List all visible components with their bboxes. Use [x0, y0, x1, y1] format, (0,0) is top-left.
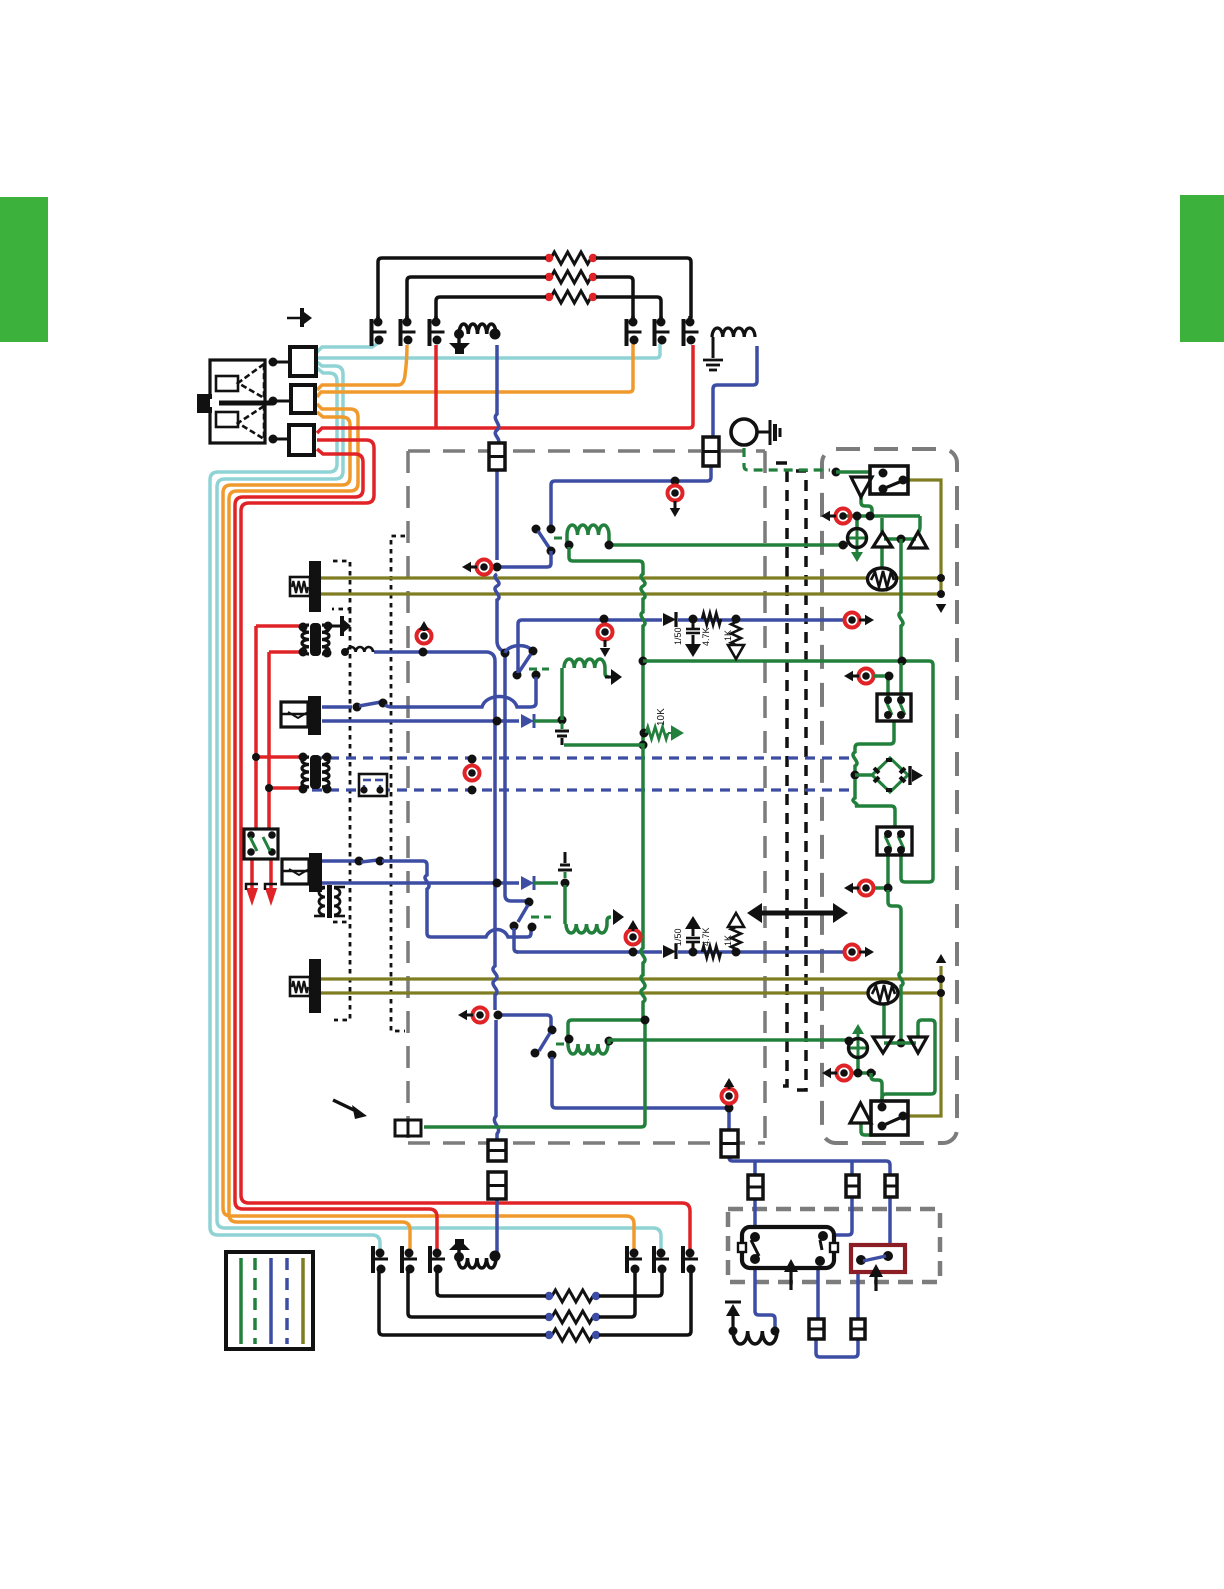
green stub ring y888 — [874, 886, 884, 890]
red ring J2 (IF line) — [417, 629, 432, 644]
blue switch S3 blade — [539, 1033, 550, 1051]
black cap below detector — [561, 723, 564, 729]
T1 pin dot 4 — [323, 649, 332, 658]
L1 left dot — [454, 329, 464, 339]
relay K1 box — [742, 1227, 834, 1268]
green dot detector2 — [561, 879, 570, 888]
olive wire from relay U1 down to bus — [908, 480, 941, 597]
green dot y545 — [839, 541, 848, 550]
blue spk1 switch blade — [359, 702, 381, 706]
green dot y539 — [897, 535, 906, 544]
blue switch S3 lower dot — [548, 1051, 557, 1060]
speaker lead 3 — [277, 438, 289, 441]
blue dot spk1 sw a — [353, 703, 362, 712]
blue wire S2 throw1 to av line — [514, 928, 518, 952]
blue dot S1a common — [529, 647, 538, 656]
connector C17 — [488, 1140, 506, 1161]
red supply wire vertical B — [267, 652, 271, 830]
earth triangle 1K b — [728, 913, 744, 927]
legend green dashed — [253, 1258, 257, 1344]
green det2 coil L7 — [566, 924, 607, 933]
olive wire from bus up-arrow to relay U2 — [908, 966, 941, 1116]
green osc2 output y1040 — [609, 1038, 848, 1042]
svg-text:1K: 1K — [723, 935, 733, 946]
blue wire relay K1 to horn coil L4 — [755, 1259, 775, 1329]
connector C19 — [721, 1130, 738, 1157]
connector C18 — [488, 1172, 506, 1199]
red wire cap C3 lead down to rail — [434, 345, 438, 428]
green junction dot y1020 — [641, 1016, 650, 1025]
olive continuation arrow (down) — [936, 604, 947, 613]
relay U2 contacts — [878, 1103, 887, 1112]
green lamp DS1 cross v — [856, 529, 859, 549]
black cap mark above red arrow 2 — [265, 884, 277, 890]
connector C15 — [809, 1319, 824, 1339]
dashed shield line 1 — [776, 463, 787, 1086]
resistor 1K b vertical — [731, 927, 741, 949]
fuse connector F1 — [489, 443, 505, 470]
horn SP circle — [731, 419, 757, 445]
green wire L5 to mixer column — [569, 547, 645, 741]
connector C20 — [885, 1175, 897, 1197]
connector box3 — [289, 425, 314, 455]
K2 contacts — [856, 1255, 866, 1265]
horn element bar1 — [769, 420, 772, 445]
J6 dot — [494, 1011, 503, 1020]
antenna coil L2 — [712, 328, 755, 337]
red ring J5 (AGC) — [465, 766, 480, 781]
green osc feedback wire y545 — [609, 543, 848, 547]
red wire to IF transformer T2 pin1 — [256, 755, 301, 759]
main unit dashed border (top edge right part) — [721, 449, 765, 453]
green wire lamp DS2 up arrow — [852, 1024, 864, 1034]
blue wire y620 collector — [518, 620, 662, 673]
blue switch S1 lower dot — [547, 547, 556, 556]
red stub to arrow 1 — [250, 858, 254, 888]
green wire det2 coil L7 left lead — [563, 885, 567, 924]
speaker cone upper neck — [216, 376, 238, 391]
variable capacitor C10 — [630, 1249, 639, 1258]
red wire to IF transformer T2 pin2 — [269, 786, 301, 790]
blue main vertical (mid section) — [495, 470, 499, 560]
blue wire speaker1 bottom lead — [322, 719, 519, 723]
red ring J13 (SW-B row) — [859, 881, 874, 896]
red wire box3 to caps C3/C6 top rail — [317, 345, 693, 433]
blue wire ring row to switch S3 — [498, 1015, 551, 1028]
main unit dashed border (bottom edge) — [408, 1141, 765, 1145]
resistor R4 — [552, 1290, 593, 1302]
variable capacitor C1 — [376, 316, 380, 322]
green dashed stub at S1 — [554, 537, 568, 540]
green switch box SW-A verticals — [888, 663, 901, 700]
resistor R1 — [551, 252, 591, 264]
junction dot y1108 — [725, 1104, 734, 1113]
blue switch S3 top dot — [548, 1026, 557, 1035]
green mixer output y661 — [643, 661, 933, 882]
green dot L5 left — [565, 541, 574, 550]
red terminal R2 right — [589, 273, 597, 281]
red wire to IF transformer T1 pin2 — [269, 650, 301, 654]
J9 arrow right — [865, 615, 874, 626]
green wire diode D2 out — [534, 719, 558, 723]
blue IF signal wire y652 — [374, 652, 497, 1010]
blue wire speaker2 top lead — [322, 859, 355, 863]
red feed arrow 1 — [246, 888, 258, 906]
parasitic choke on y652 — [347, 647, 373, 652]
blue wire relay K1 pin4 to connector C15 — [816, 1262, 820, 1319]
red terminal R1 right — [589, 254, 597, 262]
green dot diamond feed — [851, 771, 860, 780]
muting relay green blades — [250, 837, 270, 851]
green dot y888 — [884, 884, 893, 893]
J11 arrow — [844, 671, 853, 682]
blue branch vertical to switch S2 — [505, 653, 529, 901]
L4 lead with arrow — [731, 1316, 734, 1331]
green long vertical to mixer row — [899, 539, 903, 661]
green wire to lamp DS2 dot — [845, 1037, 854, 1046]
annotation arrow up 2 — [874, 1277, 877, 1291]
J6 arrow — [458, 1010, 467, 1021]
blue switch S2 throw1 dot — [510, 922, 519, 931]
blue wire y952 right of diode — [678, 950, 846, 954]
green wire SW-B to ring row y888 — [886, 850, 890, 885]
triangle T5 up open — [850, 1103, 871, 1123]
blue dot spk2 sw a — [355, 857, 364, 866]
J12 arrow right — [865, 947, 874, 958]
relay U2 blade — [884, 1117, 902, 1125]
L3 left dot — [454, 1252, 464, 1262]
red terminal R3 right — [589, 293, 597, 301]
T1 pin dot 3 — [299, 648, 308, 657]
blue dot S1a throw1 — [513, 671, 522, 680]
green det2 coil L7 right lead — [607, 917, 611, 924]
starter relay K2 box (dark red) — [851, 1245, 905, 1272]
horn element bar3 — [779, 428, 782, 437]
resistor R5 — [552, 1311, 593, 1323]
speaker terminal dot 3 — [269, 435, 278, 444]
green wire T1 bottom to thermistor W1 — [880, 547, 884, 569]
olive bus line 1 — [321, 576, 941, 579]
green lamp DS2 cross h — [849, 1047, 867, 1050]
red ring J1 (main vertical) — [477, 560, 492, 575]
red junction dot A-T2 — [252, 753, 260, 761]
cyan wire box1 loop to bottom cap C7 — [210, 368, 380, 1250]
orange wire box2 to cap C4 — [317, 344, 633, 397]
dotted shield box around oscillator coil — [332, 561, 350, 609]
T2 pin dot 1 — [299, 753, 308, 762]
variable capacitor C5 — [659, 316, 663, 322]
variable capacitor C2 — [405, 316, 409, 322]
blue dot at S1a input — [501, 649, 510, 658]
red ring J12 (blue end right b) — [845, 945, 860, 960]
black cap mark above red arrow 1 — [246, 884, 258, 890]
wire R3 right to cap C5 — [596, 297, 661, 318]
blue wire speaker2 bottom lead — [322, 881, 519, 885]
blue wire connector to bottom-right relay feed — [729, 1157, 890, 1253]
green dot y1073 a — [854, 1069, 863, 1078]
speaker lead 2 — [277, 400, 291, 403]
variable capacitor C7 — [376, 1249, 385, 1258]
red stub to arrow 2 — [269, 858, 273, 888]
right green tab — [1180, 195, 1224, 342]
red wire box3 loop to bottom cap C12 — [241, 440, 690, 1250]
SW-A contact dots — [884, 696, 892, 704]
blue switch S1 pivot dot — [532, 525, 541, 534]
red terminal R1 left — [545, 254, 553, 262]
relay K1 blade — [751, 1240, 759, 1256]
red terminal R2 left — [545, 273, 553, 281]
main unit dashed border (right edge) — [763, 451, 767, 1143]
horn coil L4 — [733, 1331, 777, 1344]
green wire y745 — [564, 745, 645, 1020]
black cap above detector2 — [564, 872, 567, 878]
cyan wire box1 loop to bottom cap C11 — [217, 362, 661, 1250]
blue signal vertical below ring — [494, 1020, 498, 1140]
red ring J3 (mixer) — [598, 625, 613, 640]
blue terminal R5 left — [545, 1313, 553, 1321]
blue dashed AGC line 1 — [312, 756, 849, 759]
antenna ground bar2 — [706, 364, 720, 367]
double-headed adjustment arrow — [752, 911, 843, 916]
legend blue solid — [269, 1258, 273, 1344]
connector box2 — [291, 385, 315, 413]
L4 dots — [729, 1327, 738, 1336]
green 10K resistor — [646, 727, 668, 739]
red terminal R3 left — [545, 293, 553, 301]
switch box SW-A — [877, 694, 911, 721]
J11 green stub — [873, 674, 885, 678]
variable capacitor C11 — [657, 1249, 666, 1258]
T2 pin dot 4 — [323, 785, 332, 794]
relay U2 box — [871, 1101, 908, 1135]
choke dot — [341, 648, 349, 656]
relay K1 contacts — [750, 1232, 760, 1242]
K2 blade — [863, 1256, 886, 1261]
green wire row to relay U2 — [871, 1073, 882, 1100]
green junction dot 10K — [640, 729, 649, 738]
bypass cap to ground — [692, 623, 695, 628]
dotted shield line 2 (long) — [391, 536, 405, 1031]
olive continuation arrow (up) — [936, 954, 947, 963]
red feed arrow 2 — [265, 888, 277, 906]
blue arc over vertical (switch S1a) — [505, 646, 532, 653]
blue wire connectors to output coil L3 — [495, 1199, 499, 1253]
green switch SW-A blades — [886, 701, 905, 715]
green dashed wire from horn to relay U1 — [744, 448, 830, 470]
red wire to IF transformer T1 pin1 — [256, 624, 301, 628]
relay K1 side notches — [738, 1243, 746, 1252]
green det coil L6 right lead — [605, 668, 609, 677]
green dashed stub at L7 — [531, 916, 551, 919]
relay U1 box — [870, 466, 908, 494]
junction dot olive bus2/relay wire — [937, 590, 945, 598]
blue main vertical (top section) — [495, 345, 498, 444]
green wire SW-A out to diamond — [853, 721, 894, 771]
wire R3 left to cap C3 — [436, 297, 546, 318]
T1 pin dot 2 — [324, 622, 333, 631]
olive bus line 2 — [321, 592, 941, 595]
green lamp DS1 cross h — [848, 537, 866, 540]
blue terminal R5 right — [592, 1313, 600, 1321]
blue wire fuse F2 to volume switch — [551, 466, 711, 529]
variable capacitor C8 — [405, 1249, 414, 1258]
blue switch S3 throw dot — [531, 1049, 540, 1058]
legend green solid — [239, 1258, 243, 1344]
green wire relay U1 to triangle — [861, 497, 872, 516]
J10 arrow — [821, 511, 830, 522]
junction dot blue y567 — [493, 563, 502, 572]
J11 dot — [885, 672, 894, 681]
IF transformer T1 — [310, 623, 321, 656]
RF coil L1 — [459, 324, 496, 334]
green dashed stub at L6 — [529, 668, 549, 671]
green oscillator coil L5 — [567, 525, 609, 535]
green wire diamond to SW-B — [853, 779, 895, 827]
L3 right dot — [490, 1251, 501, 1262]
blue dot spk1 sw b — [379, 699, 388, 708]
blue switch S2 blade — [518, 905, 528, 922]
T1 pin dot 1 — [299, 623, 308, 632]
triangle T-down at U1 — [851, 477, 872, 497]
blue terminal R4 right — [592, 1292, 600, 1300]
wire R2 left to cap C2 — [407, 277, 546, 318]
junction dot olive bus3/relay wire — [937, 975, 945, 983]
wire R2 right to cap C4 — [596, 277, 633, 318]
J14 arrow — [822, 1068, 831, 1079]
green loop T4 to relay U2 — [882, 1020, 935, 1104]
green wire relay U2 bottom to triangle T5 — [861, 1123, 882, 1135]
blue wire antenna coil to fuse F2 — [713, 346, 757, 437]
output coil L3 — [458, 1258, 496, 1268]
speaker lead 1 — [277, 361, 290, 364]
diamond output arrow — [912, 769, 923, 782]
triangle T4 down — [909, 1037, 927, 1053]
speaker cone lower neck — [216, 412, 238, 427]
speaker terminal dot 1 — [269, 358, 278, 367]
J13 arrow — [844, 883, 853, 894]
blue dot spk2 sw b — [376, 857, 385, 866]
blue wire S1 to main vertical — [497, 551, 551, 567]
red supply wire vertical A — [254, 626, 258, 830]
green junction dot at relay U1 input — [832, 468, 841, 477]
connector C16 — [851, 1319, 865, 1339]
diamond output bar — [908, 766, 911, 785]
green wire W2 to triangle T3 — [882, 1004, 886, 1037]
red ring J10 (relay row) — [836, 509, 851, 524]
blue wire speaker1 top lead — [322, 705, 352, 709]
speaker cone upper — [238, 364, 264, 398]
IF transformer T2 — [310, 755, 321, 789]
main unit dashed border (left edge) — [406, 451, 410, 1143]
speaker magnet block — [197, 394, 212, 413]
J1 arrow — [462, 562, 471, 573]
blue terminal R4 left — [545, 1292, 553, 1300]
trimmer resistor box 2 — [290, 977, 310, 996]
antenna ground bar1 — [703, 359, 723, 362]
blue dot S1a throw2 — [532, 671, 541, 680]
green dot row y516 a — [853, 512, 862, 521]
legend olive solid — [301, 1258, 305, 1344]
black arrow at L6 — [611, 669, 622, 685]
speaker terminal dot 2 — [269, 397, 278, 406]
blue switch S1 blade — [538, 531, 550, 549]
legend blue dashed — [285, 1258, 289, 1344]
horn connector F3 — [395, 1120, 408, 1136]
resistor R2 — [551, 271, 591, 283]
ferrite tuning bar 1 — [309, 561, 321, 612]
blue main vertical wiggle across olive bus — [495, 574, 505, 652]
red ring J4 (antenna feed) — [668, 486, 683, 501]
red ring J8 (av line) — [626, 930, 641, 945]
red ring J11 (SW-A row) — [859, 669, 874, 684]
speaker cone lower — [238, 406, 264, 439]
green wire row to lamp DS1 — [855, 516, 859, 529]
dotted shield partial box over bar2 — [333, 921, 350, 924]
svg-text:1K: 1K — [723, 630, 733, 641]
wire R4 left — [437, 1271, 546, 1296]
green ring row y1073 link — [852, 1071, 876, 1075]
resistor R3 — [551, 291, 591, 303]
red ring J6 (osc2 row) — [473, 1008, 488, 1023]
L1 ground arrow — [457, 338, 460, 343]
speaker magnet notch — [210, 399, 219, 407]
fuse connector F2 — [703, 437, 719, 466]
variable capacitor C12 — [686, 1249, 695, 1258]
triangle T2 up — [909, 532, 927, 548]
switch box SW-B — [877, 827, 912, 855]
svg-text:10K: 10K — [656, 708, 667, 726]
horn lead — [757, 431, 769, 434]
ferrite tuning bar 2 — [309, 959, 321, 1013]
dashed shield line 2 — [796, 471, 806, 1090]
T2 pin dot 2 — [323, 753, 332, 762]
blue wire y952 av line — [516, 950, 662, 954]
green dot y1043 — [897, 1039, 906, 1048]
green wire row to triangle T2 apex — [918, 516, 920, 533]
thermistor W1 — [868, 568, 897, 590]
green dot L8 right — [605, 1037, 614, 1046]
blue dashed AGC line 2 — [312, 788, 849, 791]
junction dot y721 — [493, 717, 502, 726]
left green tab — [0, 197, 48, 342]
green junction dot y661 — [639, 657, 648, 666]
resistor R6 — [552, 1329, 593, 1341]
speaker pair housing — [210, 360, 265, 443]
orange wire box2 loop to bottom cap C10 — [223, 412, 634, 1250]
thermistor W2 — [868, 982, 898, 1004]
earphone SPK2 — [282, 859, 309, 884]
J2 arrow up — [419, 621, 430, 630]
J3 arrow down — [600, 648, 611, 657]
green wire to diamond — [855, 773, 872, 777]
earth triangle 1K — [728, 645, 744, 659]
green arrow below lamp DS1 — [851, 552, 863, 562]
green dot y661 right — [898, 657, 907, 666]
antenna ground bar3 — [709, 369, 717, 372]
green osc2 coil L8 — [568, 1044, 608, 1054]
green wire triangle T1 apex up — [880, 518, 884, 533]
red ring J7 (bottom feed) — [722, 1089, 737, 1104]
J8 arrow up — [628, 920, 639, 929]
wire R6 left — [379, 1271, 546, 1335]
junction dot olive bus4/relay wire — [937, 989, 945, 997]
blue terminal R6 left — [545, 1331, 553, 1339]
orange wire box2 loop to bottom cap C8 — [229, 404, 410, 1250]
speaker mid bar — [211, 401, 273, 406]
J4 arrow down — [670, 508, 681, 517]
lamp DS1 circle — [848, 529, 867, 548]
svg-text:4.7K: 4.7K — [701, 927, 711, 946]
